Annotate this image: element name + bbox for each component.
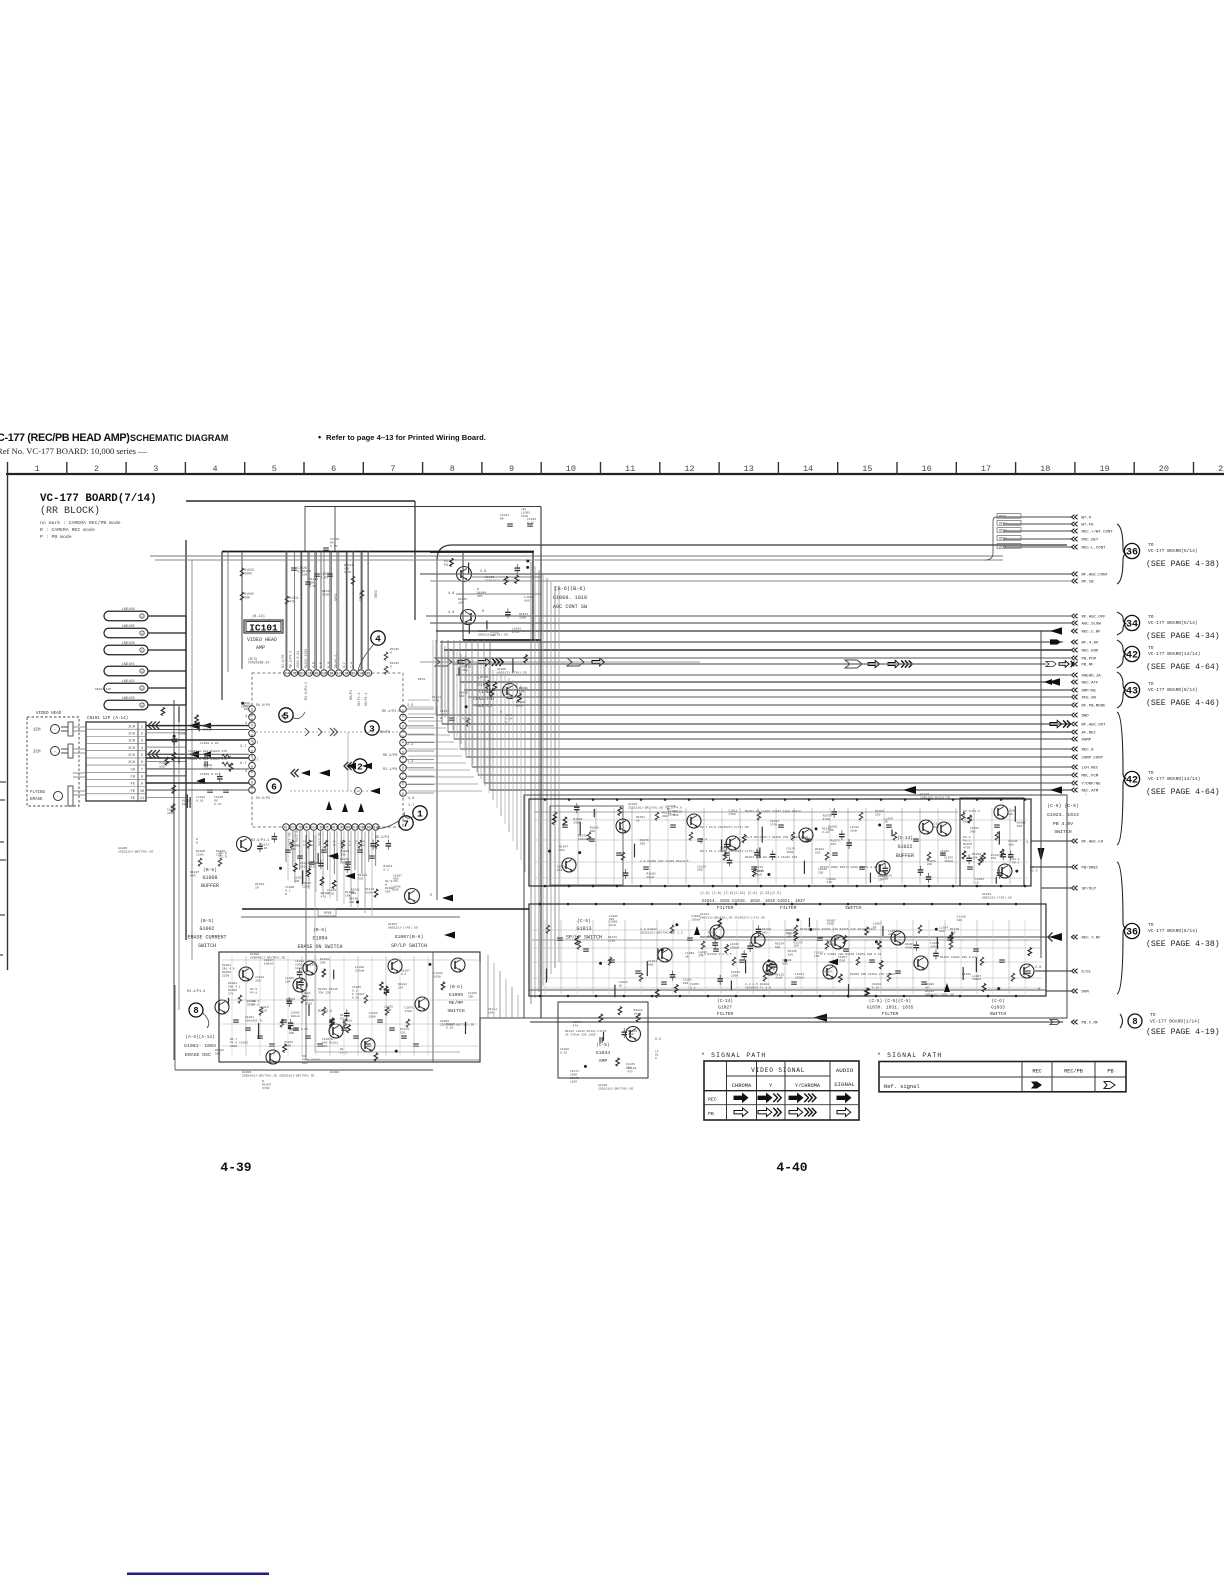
svg-text:R0/P1.1: R0/P1.1 bbox=[364, 693, 368, 706]
svg-text:6800: 6800 bbox=[340, 861, 347, 864]
svg-text:9: 9 bbox=[509, 464, 514, 474]
svg-text:8: 8 bbox=[193, 1006, 198, 1016]
svg-text:* SIGNAL PATH: * SIGNAL PATH bbox=[877, 1052, 942, 1059]
svg-text:680: 680 bbox=[1008, 843, 1014, 846]
svg-text:100uH: 100uH bbox=[944, 860, 953, 863]
svg-text:500: 500 bbox=[190, 874, 196, 878]
svg-text:2.7: 2.7 bbox=[240, 745, 246, 749]
svg-text:RF.AGC.CH: RF.AGC.CH bbox=[1082, 841, 1104, 845]
svg-text:680: 680 bbox=[1007, 813, 1013, 816]
svg-text:0.01: 0.01 bbox=[560, 1051, 567, 1054]
svg-text:RPG3: RPG3 bbox=[999, 529, 1007, 533]
svg-text:18uH: 18uH bbox=[295, 967, 302, 970]
svg-text:15: 15 bbox=[862, 464, 872, 474]
svg-text:6: 6 bbox=[319, 827, 321, 831]
svg-text:1650: 1650 bbox=[570, 1080, 577, 1083]
svg-text:2200: 2200 bbox=[519, 617, 526, 620]
svg-text:ERASE OSC: ERASE OSC bbox=[185, 1052, 211, 1058]
svg-text:100uH: 100uH bbox=[930, 945, 939, 948]
svg-text:FILTER: FILTER bbox=[717, 1011, 734, 1017]
svg-text:4.8: 4.8 bbox=[448, 592, 454, 596]
svg-text:1: 1 bbox=[35, 464, 40, 474]
svg-text:CHROMA: CHROMA bbox=[732, 1083, 752, 1089]
svg-text:21: 21 bbox=[1218, 464, 1224, 474]
svg-text:6800: 6800 bbox=[365, 891, 373, 895]
svg-text:AMP: AMP bbox=[599, 1058, 608, 1064]
svg-text:CH: CH bbox=[130, 768, 135, 772]
svg-text:33K 22K: 33K 22K bbox=[318, 991, 331, 994]
svg-text:R: R bbox=[285, 892, 287, 896]
svg-text:33K: 33K bbox=[786, 932, 792, 935]
svg-text:0.1: 0.1 bbox=[401, 973, 407, 976]
svg-text:18uH: 18uH bbox=[634, 1012, 641, 1015]
svg-text:5: 5 bbox=[283, 710, 289, 721]
svg-text:1K: 1K bbox=[787, 936, 791, 939]
svg-text:10K: 10K bbox=[291, 848, 297, 851]
svg-text:R0.3/P0: R0.3/P0 bbox=[383, 753, 397, 758]
svg-text:TO: TO bbox=[1148, 614, 1154, 620]
svg-text:R1051 1K L1016 C1047 18uH G1: R1051 1K L1016 C1047 18uH G1012 bbox=[745, 810, 801, 813]
svg-text:18uH: 18uH bbox=[775, 977, 782, 980]
svg-text:0.5: 0.5 bbox=[655, 1037, 661, 1041]
svg-text:2CH: 2CH bbox=[128, 747, 135, 751]
svg-text:2200: 2200 bbox=[608, 939, 615, 942]
svg-text:G1027: G1027 bbox=[718, 1005, 732, 1011]
svg-text:820: 820 bbox=[815, 851, 821, 854]
svg-text:R6: R6 bbox=[500, 517, 504, 520]
svg-text:(B-5): (B-5) bbox=[203, 867, 217, 873]
svg-text:ERASE CURRENT: ERASE CURRENT bbox=[187, 935, 226, 941]
svg-text:4700: 4700 bbox=[301, 995, 308, 998]
svg-text:ERASE: ERASE bbox=[30, 798, 43, 802]
svg-text:0.65: 0.65 bbox=[309, 585, 316, 588]
svg-text:4: 4 bbox=[306, 827, 308, 831]
svg-text:470: 470 bbox=[627, 1070, 633, 1073]
svg-text:13: 13 bbox=[366, 673, 370, 677]
svg-text:+: + bbox=[357, 790, 360, 795]
svg-text:DR03: DR03 bbox=[374, 590, 378, 598]
svg-text:2: 2 bbox=[94, 464, 99, 474]
svg-text:REC.Y.RF: REC.Y.RF bbox=[1082, 937, 1102, 941]
svg-text:10: 10 bbox=[346, 827, 350, 831]
svg-text:A: A bbox=[655, 1057, 657, 1060]
svg-text:4700: 4700 bbox=[708, 935, 715, 938]
svg-text:C-177 (REC/PB HEAD AMP): C-177 (REC/PB HEAD AMP) bbox=[0, 432, 130, 444]
svg-text:VC-177 BOARD(5/14): VC-177 BOARD(5/14) bbox=[1148, 548, 1198, 554]
svg-text:P2.8: P2.8 bbox=[1030, 869, 1038, 873]
svg-text:VC-177 BOARD(1/14): VC-177 BOARD(1/14) bbox=[1150, 1019, 1200, 1025]
svg-text:REC/PB: REC/PB bbox=[1064, 1069, 1083, 1075]
svg-text:1: 1 bbox=[141, 725, 143, 729]
svg-text:680: 680 bbox=[182, 803, 188, 806]
svg-text:FILTER: FILTER bbox=[717, 905, 734, 911]
svg-text:RPG5: RPG5 bbox=[999, 545, 1007, 549]
svg-text:820: 820 bbox=[1017, 825, 1023, 828]
svg-text:18uH: 18uH bbox=[850, 829, 857, 832]
svg-text:1.3: 1.3 bbox=[407, 760, 413, 764]
svg-text:G1034: G1034 bbox=[596, 1050, 611, 1056]
svg-text:7: 7 bbox=[141, 768, 143, 772]
svg-text:DOC.DET: DOC.DET bbox=[1082, 539, 1099, 543]
svg-text:SP/LP SWITCH: SP/LP SWITCH bbox=[566, 935, 602, 941]
svg-text:BUFFER: BUFFER bbox=[201, 883, 219, 889]
svg-text:SCHEMATIC DIAGRAM: SCHEMATIC DIAGRAM bbox=[130, 433, 228, 443]
svg-text:18uH: 18uH bbox=[260, 1009, 267, 1012]
svg-text:23: 23 bbox=[292, 673, 296, 677]
svg-text:17: 17 bbox=[981, 464, 991, 474]
svg-text:G1009. 1010: G1009. 1010 bbox=[553, 595, 587, 601]
svg-text:18uH: 18uH bbox=[608, 924, 615, 927]
svg-text:IC101: IC101 bbox=[249, 623, 278, 634]
svg-text:RF.AGC.OFF: RF.AGC.OFF bbox=[1082, 616, 1107, 620]
svg-text:560: 560 bbox=[590, 830, 596, 833]
svg-text:(SEE PAGE 4-38): (SEE PAGE 4-38) bbox=[1146, 939, 1220, 949]
svg-text:680: 680 bbox=[393, 878, 399, 881]
svg-text:9: 9 bbox=[141, 783, 143, 787]
svg-text:* SIGNAL PATH: * SIGNAL PATH bbox=[701, 1052, 766, 1059]
svg-text:(C-6) (C-5): (C-6) (C-5) bbox=[1047, 803, 1079, 809]
svg-text:14: 14 bbox=[359, 673, 363, 677]
svg-text:4.7: 4.7 bbox=[245, 722, 251, 726]
svg-text:1500: 1500 bbox=[392, 889, 399, 892]
svg-text:390: 390 bbox=[351, 892, 357, 895]
svg-text:22K: 22K bbox=[927, 863, 933, 866]
svg-text:REC.9: REC.9 bbox=[1082, 749, 1095, 753]
svg-text:R1.1/P0: R1.1/P0 bbox=[383, 767, 397, 772]
svg-text:SWITCH: SWITCH bbox=[198, 943, 216, 949]
svg-text:820: 820 bbox=[683, 982, 689, 985]
svg-text:3300: 3300 bbox=[247, 1003, 254, 1006]
svg-text:7: 7 bbox=[390, 464, 395, 474]
svg-text:33K: 33K bbox=[340, 853, 346, 856]
svg-text:R3.5/P4.1: R3.5/P4.1 bbox=[251, 838, 269, 843]
svg-text:150: 150 bbox=[831, 843, 837, 846]
svg-text:(C-5): (C-5) bbox=[596, 1043, 609, 1048]
svg-text:R0.6 R0.6/P3.7 R1066 330 L10: R0.6 R0.6/P3.7 R1066 330 L1012 18uH bbox=[745, 835, 808, 839]
svg-text:1CH: 1CH bbox=[128, 740, 135, 744]
svg-text:560: 560 bbox=[933, 826, 939, 829]
svg-text:1CH: 1CH bbox=[33, 729, 41, 733]
svg-text:0.1: 0.1 bbox=[383, 869, 389, 872]
svg-text:Y/CHROMA: Y/CHROMA bbox=[795, 1083, 821, 1089]
svg-text:34: 34 bbox=[1126, 620, 1138, 631]
svg-text:20K: 20K bbox=[244, 596, 250, 600]
svg-text:DN101 12P: DN101 12P bbox=[95, 688, 111, 691]
svg-text:(CH.REC: (CH.REC bbox=[1082, 766, 1099, 771]
svg-text:R2/P4.8: R2/P4.8 bbox=[318, 1009, 332, 1013]
svg-text:36: 36 bbox=[1126, 548, 1138, 559]
svg-text:R0.2/P3: R0.2/P3 bbox=[375, 835, 389, 840]
svg-text:TO: TO bbox=[1148, 542, 1154, 548]
svg-text:(C-G): (C-G) bbox=[991, 999, 1004, 1004]
svg-text:2SD2216J-QR(TX0).SO 1.5: 2SD2216J-QR(TX0).SO 1.5 bbox=[640, 931, 683, 935]
svg-text:CN101 12P (A-14): CN101 12P (A-14) bbox=[87, 716, 128, 721]
svg-text:(C-14): (C-14) bbox=[717, 999, 733, 1004]
svg-text:4700: 4700 bbox=[963, 846, 971, 850]
svg-text:2SB1462J-QR(TX0).SO 2SD2216J-: 2SB1462J-QR(TX0).SO 2SD2216J-QR(TX0).SO bbox=[242, 1074, 315, 1078]
svg-text:FE: FE bbox=[130, 790, 135, 794]
svg-text:R1109 C1088 1N0 0.01: R1109 C1088 1N0 0.01 bbox=[940, 956, 976, 959]
svg-text:LND101: LND101 bbox=[122, 663, 135, 667]
svg-text:4.2: 4.2 bbox=[342, 662, 346, 668]
svg-text:5: 5 bbox=[272, 464, 277, 474]
svg-text:C1022 0.01: C1022 0.01 bbox=[200, 741, 219, 745]
svg-text:(SEE PAGE 4-46): (SEE PAGE 4-46) bbox=[1146, 698, 1220, 708]
svg-text:REC.END: REC.END bbox=[1082, 650, 1099, 654]
svg-text:RPG4: RPG4 bbox=[999, 537, 1007, 541]
svg-text:UN9213J-(TX0).SO: UN9213J-(TX0).SO bbox=[497, 671, 527, 675]
svg-text:0.65: 0.65 bbox=[344, 571, 351, 574]
svg-text:1K: 1K bbox=[636, 819, 640, 822]
svg-text:4.6: 4.6 bbox=[448, 611, 454, 615]
svg-text:680: 680 bbox=[939, 930, 945, 933]
svg-text:680: 680 bbox=[697, 869, 703, 872]
svg-text:RP0E: RP0E bbox=[324, 911, 332, 915]
svg-text:33K: 33K bbox=[698, 954, 704, 957]
svg-text:2: 2 bbox=[141, 732, 143, 736]
svg-text:RP54: RP54 bbox=[418, 678, 425, 681]
svg-text:(C-5): (C-5) bbox=[577, 918, 591, 924]
svg-text:VIDEO HEAD: VIDEO HEAD bbox=[36, 712, 62, 716]
svg-text:6: 6 bbox=[141, 761, 143, 765]
svg-text:9: 9 bbox=[340, 827, 342, 831]
svg-text:TO: TO bbox=[1148, 645, 1154, 651]
svg-text:0.15: 0.15 bbox=[872, 986, 879, 989]
svg-text:2.8 G1058 22K C1049 R10/0.5: 2.8 G1058 22K C1049 R10/0.5 bbox=[640, 859, 689, 863]
svg-text:4-39: 4-39 bbox=[220, 1160, 251, 1175]
svg-text:22K: 22K bbox=[818, 872, 824, 875]
svg-text:560: 560 bbox=[215, 1052, 221, 1055]
svg-text:2.7: 2.7 bbox=[252, 742, 258, 746]
svg-text:0: 0 bbox=[1038, 988, 1040, 992]
svg-text:REC.+/WT.CONT: REC.+/WT.CONT bbox=[1082, 530, 1114, 535]
svg-text:220uH: 220uH bbox=[203, 767, 212, 771]
svg-text:390: 390 bbox=[662, 815, 668, 818]
svg-text:(C-6) (C-6) (C-6)(C-13) (C-6): (C-6) (C-6) (C-6)(C-13) (C-6) (C-13)(C-5… bbox=[700, 891, 781, 895]
svg-text:15K: 15K bbox=[385, 890, 391, 893]
svg-text:24: 24 bbox=[285, 673, 289, 677]
svg-text:Refer to page 4–13 for Printed: Refer to page 4–13 for Printed Wiring Bo… bbox=[326, 433, 486, 442]
svg-text:TO: TO bbox=[1148, 770, 1154, 776]
svg-text:ME/MP: ME/MP bbox=[449, 1000, 464, 1006]
svg-text:W: W bbox=[700, 841, 702, 844]
svg-text:5: 5 bbox=[313, 827, 315, 831]
svg-text:680: 680 bbox=[648, 963, 654, 966]
svg-text:R3.5/P4.2: R3.5/P4.2 bbox=[304, 682, 309, 700]
svg-text:R0/P2: R0/P2 bbox=[380, 730, 390, 735]
svg-text:1500: 1500 bbox=[826, 943, 833, 946]
svg-text:470: 470 bbox=[557, 869, 563, 872]
svg-text:LND105: LND105 bbox=[122, 625, 135, 629]
svg-text:150: 150 bbox=[458, 662, 464, 665]
svg-text:100uH: 100uH bbox=[264, 963, 273, 966]
svg-text:3: 3 bbox=[153, 464, 158, 474]
svg-text:19: 19 bbox=[322, 673, 326, 677]
svg-text:VC-177 BOARD(9/14): VC-177 BOARD(9/14) bbox=[1148, 687, 1198, 693]
svg-text:REC: REC bbox=[708, 1097, 717, 1103]
svg-text:FILTER: FILTER bbox=[780, 905, 797, 911]
svg-text:18uH: 18uH bbox=[516, 705, 523, 708]
svg-text:BUFFER: BUFFER bbox=[896, 853, 914, 859]
svg-text:1R: 1R bbox=[255, 886, 259, 890]
svg-text:E/SL: E/SL bbox=[1082, 970, 1092, 975]
svg-text:820: 820 bbox=[159, 766, 165, 769]
svg-text:2200: 2200 bbox=[196, 853, 204, 857]
svg-text:P3.5: P3.5 bbox=[219, 855, 227, 859]
svg-text:VC-177 BOARD(6/14): VC-177 BOARD(6/14) bbox=[1148, 928, 1198, 934]
svg-text:820: 820 bbox=[302, 1062, 308, 1065]
svg-text:220uH: 220uH bbox=[203, 728, 212, 732]
svg-text:11: 11 bbox=[625, 464, 635, 474]
svg-text:13: 13 bbox=[367, 827, 371, 831]
svg-text:SWITCH: SWITCH bbox=[447, 1008, 464, 1014]
svg-text:FLYING: FLYING bbox=[30, 791, 46, 795]
svg-text:FILTER: FILTER bbox=[882, 1011, 899, 1017]
svg-text:7: 7 bbox=[403, 818, 409, 829]
svg-text:560: 560 bbox=[762, 931, 768, 934]
svg-text:2SD2216J-QR(TX0).SO: 2SD2216J-QR(TX0).SO bbox=[118, 850, 153, 854]
svg-text:P : PB mode: P : PB mode bbox=[40, 534, 72, 540]
svg-text:2200: 2200 bbox=[888, 933, 895, 936]
svg-text:1K: 1K bbox=[309, 866, 313, 869]
svg-text:820: 820 bbox=[788, 954, 794, 957]
svg-text:0.7: 0.7 bbox=[252, 759, 258, 763]
svg-text:3: 3 bbox=[369, 723, 375, 734]
svg-text:RF.AGC.CONT: RF.AGC.CONT bbox=[1082, 574, 1109, 578]
svg-text:AGC.SLOW: AGC.SLOW bbox=[1082, 623, 1102, 627]
svg-text:0.01: 0.01 bbox=[823, 974, 830, 977]
svg-text:(B-G): (B-G) bbox=[449, 985, 462, 990]
svg-text:33K: 33K bbox=[468, 996, 474, 999]
svg-text:1CH: 1CH bbox=[128, 725, 135, 729]
svg-text:1: 1 bbox=[417, 808, 423, 819]
svg-text:3: 3 bbox=[141, 740, 143, 744]
svg-text:R0.5/P0.1: R0.5/P0.1 bbox=[289, 651, 293, 668]
svg-text:820: 820 bbox=[720, 850, 726, 853]
svg-text:REC-L.CONT: REC-L.CONT bbox=[1082, 547, 1107, 551]
svg-text:10K: 10K bbox=[349, 901, 355, 904]
svg-text:TO: TO bbox=[1148, 922, 1154, 928]
svg-text:ERASE ON SWITCH: ERASE ON SWITCH bbox=[297, 944, 342, 950]
svg-text:1: 1 bbox=[285, 827, 287, 831]
svg-text:8: 8 bbox=[333, 827, 335, 831]
svg-text:R1072 3900 R1074 8200 C1051: R1072 3900 R1074 8200 C1051 8.61 bbox=[820, 866, 878, 869]
svg-text:4: 4 bbox=[375, 633, 381, 644]
svg-text:20: 20 bbox=[1159, 464, 1169, 474]
svg-text:1K: 1K bbox=[884, 821, 888, 824]
svg-text:P0.1: P0.1 bbox=[1012, 861, 1020, 865]
svg-text:R0/P2.3: R0/P2.3 bbox=[357, 693, 361, 706]
svg-text:4700: 4700 bbox=[167, 812, 174, 815]
svg-text:150: 150 bbox=[793, 945, 799, 948]
svg-text:(SEE PAGE 4-34): (SEE PAGE 4-34) bbox=[1146, 631, 1220, 641]
svg-text:150: 150 bbox=[991, 857, 997, 860]
svg-text:3300: 3300 bbox=[827, 923, 834, 926]
svg-text:R : CAMERA REC mode: R : CAMERA REC mode bbox=[40, 527, 95, 533]
svg-text:TO: TO bbox=[1148, 681, 1154, 687]
svg-text:10K: 10K bbox=[458, 601, 464, 604]
svg-text:14: 14 bbox=[803, 464, 813, 474]
svg-text:PB/XREC: PB/XREC bbox=[1082, 866, 1099, 871]
svg-text:CXA2016B-14: CXA2016B-14 bbox=[248, 661, 269, 665]
svg-text:CH: CH bbox=[130, 776, 135, 780]
svg-text:W: W bbox=[196, 841, 198, 844]
svg-text:R2.8/P4.8: R2.8/P4.8 bbox=[963, 809, 980, 813]
svg-text:1500: 1500 bbox=[731, 975, 738, 978]
svg-text:RF.4.9V: RF.4.9V bbox=[1082, 642, 1099, 646]
svg-text:FE: FE bbox=[130, 797, 135, 801]
svg-text:C002 0.01: C002 0.01 bbox=[296, 651, 300, 668]
svg-text:RP51: RP51 bbox=[334, 593, 338, 601]
svg-text:SWITCH: SWITCH bbox=[845, 905, 862, 911]
svg-text:22K: 22K bbox=[398, 986, 404, 989]
svg-text:4.2: 4.2 bbox=[245, 770, 251, 774]
svg-text:C1018 0.022 R1023 470: C1018 0.022 R1023 470 bbox=[188, 749, 227, 753]
svg-text:11: 11 bbox=[353, 827, 357, 831]
svg-text:CAMP.CONT: CAMP.CONT bbox=[1082, 757, 1104, 761]
svg-text:LND103: LND103 bbox=[122, 697, 135, 701]
svg-text:150uH: 150uH bbox=[795, 976, 804, 979]
svg-text:VC-177 BOARD(7/14): VC-177 BOARD(7/14) bbox=[40, 493, 157, 505]
svg-text:0.01: 0.01 bbox=[260, 847, 267, 850]
svg-text:G1023. 1024: G1023. 1024 bbox=[1047, 812, 1079, 818]
svg-text:2700: 2700 bbox=[770, 823, 777, 826]
svg-text:G1014. 1015 G1016. 1018. 1019: G1014. 1015 G1016. 1018. 1019 G1021. 103… bbox=[702, 900, 806, 904]
svg-text:2SA1862-TL: 2SA1862-TL bbox=[245, 1019, 263, 1022]
svg-text:PB 4.9V: PB 4.9V bbox=[1053, 821, 1073, 827]
svg-text:560: 560 bbox=[970, 830, 976, 833]
svg-text:R: R bbox=[390, 651, 392, 654]
svg-text:33K: 33K bbox=[477, 595, 483, 598]
svg-text:0: 0 bbox=[482, 610, 484, 614]
svg-text:4700: 4700 bbox=[404, 1010, 411, 1013]
svg-text:(B-13): (B-13) bbox=[252, 614, 265, 619]
svg-text:G1008: G1008 bbox=[202, 875, 217, 881]
svg-text:AF.REC: AF.REC bbox=[1082, 732, 1097, 736]
svg-text:2.5: 2.5 bbox=[302, 840, 306, 846]
svg-text:G1033: G1033 bbox=[991, 1005, 1005, 1011]
svg-text:LND106: LND106 bbox=[122, 642, 135, 646]
svg-text:100uH: 100uH bbox=[972, 978, 981, 981]
svg-text:18uH: 18uH bbox=[755, 873, 762, 876]
svg-text:SWITCH: SWITCH bbox=[990, 1011, 1007, 1017]
svg-text:VIDEO HEAD: VIDEO HEAD bbox=[247, 637, 277, 643]
svg-text:2.8: 2.8 bbox=[1035, 966, 1041, 970]
svg-text:150: 150 bbox=[814, 955, 820, 958]
svg-text:100uH: 100uH bbox=[578, 838, 587, 841]
svg-text:1500: 1500 bbox=[230, 1045, 237, 1048]
svg-text:G1004: G1004 bbox=[330, 1070, 339, 1074]
svg-text:(SEE PAGE 4-64): (SEE PAGE 4-64) bbox=[1146, 787, 1220, 797]
svg-text:0.01: 0.01 bbox=[446, 1026, 453, 1029]
svg-text:42: 42 bbox=[1126, 776, 1138, 787]
svg-text:VC-177 BOARD(14/14): VC-177 BOARD(14/14) bbox=[1148, 651, 1200, 657]
svg-text:•: • bbox=[318, 432, 321, 442]
svg-text:10K: 10K bbox=[957, 919, 963, 922]
svg-text:390: 390 bbox=[640, 843, 646, 846]
svg-text:20K: 20K bbox=[320, 961, 326, 964]
svg-text:43: 43 bbox=[1126, 687, 1138, 698]
svg-text:21: 21 bbox=[307, 673, 311, 677]
svg-text:2SD2216J-QR(TX0).SO: 2SD2216J-QR(TX0).SO bbox=[598, 1087, 633, 1091]
svg-text:330: 330 bbox=[875, 813, 881, 816]
svg-text:820: 820 bbox=[244, 708, 250, 711]
svg-text:G1001- 1003: G1001- 1003 bbox=[184, 1043, 216, 1049]
svg-text:0.1: 0.1 bbox=[690, 986, 696, 989]
svg-text:4.8: 4.8 bbox=[1026, 840, 1032, 844]
svg-text:2200: 2200 bbox=[222, 974, 229, 977]
svg-text:33K: 33K bbox=[673, 814, 679, 817]
